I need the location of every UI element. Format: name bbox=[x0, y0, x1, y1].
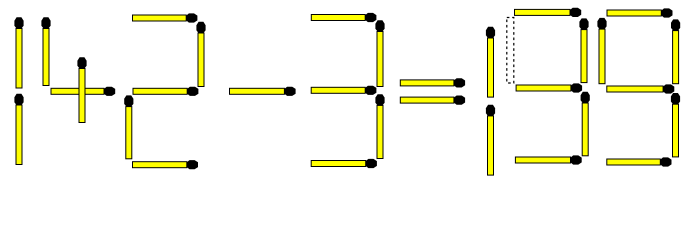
equals sign upper matchstick bbox=[400, 78, 465, 87]
dotted empty slot for the missing top-left matchstick of the first 9 bbox=[507, 18, 514, 84]
equals sign lower matchstick bbox=[400, 96, 465, 105]
digit 9 (first) top matchstick bbox=[514, 8, 581, 17]
digit 9 (second) middle matchstick bbox=[606, 84, 674, 93]
digit 2 bottom-left matchstick bbox=[124, 95, 133, 159]
digit 3 bottom-right matchstick bbox=[375, 94, 384, 159]
plus sign horizontal matchstick bbox=[51, 87, 116, 96]
digit 1 (result) top matchstick bbox=[486, 27, 495, 98]
lone vertical matchstick right of the 1 bbox=[41, 17, 50, 86]
digit 3 bottom matchstick bbox=[311, 159, 377, 168]
digit 9 (second) top matchstick bbox=[607, 8, 673, 17]
digit 3 top matchstick bbox=[311, 13, 377, 22]
digit 3 middle matchstick bbox=[311, 86, 377, 95]
digit 9 (first) bottom-right matchstick bbox=[581, 92, 590, 157]
digit 9 (second) bottom matchstick bbox=[606, 157, 671, 166]
minus sign matchstick bbox=[229, 87, 296, 96]
digit 9 (first) middle matchstick bbox=[516, 83, 583, 92]
digit 1 (first operand) bottom matchstick bbox=[14, 94, 23, 165]
digit 9 (first) bottom matchstick bbox=[515, 155, 582, 164]
digit 2 top matchstick bbox=[132, 13, 197, 22]
digit 9 (second) top-left matchstick bbox=[597, 18, 606, 84]
matchstick equation puzzle: 1 1 + 2 - 3 = 1 9 9 (first 9 missing its top-left stick, shown dotted) bbox=[0, 0, 698, 183]
digit 1 (first operand) top matchstick bbox=[14, 17, 23, 88]
digit 3 top-right matchstick bbox=[375, 20, 384, 87]
plus sign vertical matchstick bbox=[77, 57, 86, 123]
digit 2 bottom matchstick bbox=[132, 160, 198, 169]
digit 2 middle matchstick bbox=[133, 87, 199, 96]
digit 9 (second) bottom-right matchstick bbox=[671, 93, 680, 157]
digit 1 (result) bottom matchstick bbox=[486, 105, 495, 176]
digit 2 top-right matchstick bbox=[196, 22, 205, 87]
digit 9 (first) top-right matchstick bbox=[579, 18, 588, 83]
digit 9 (second) top-right matchstick bbox=[671, 19, 680, 84]
